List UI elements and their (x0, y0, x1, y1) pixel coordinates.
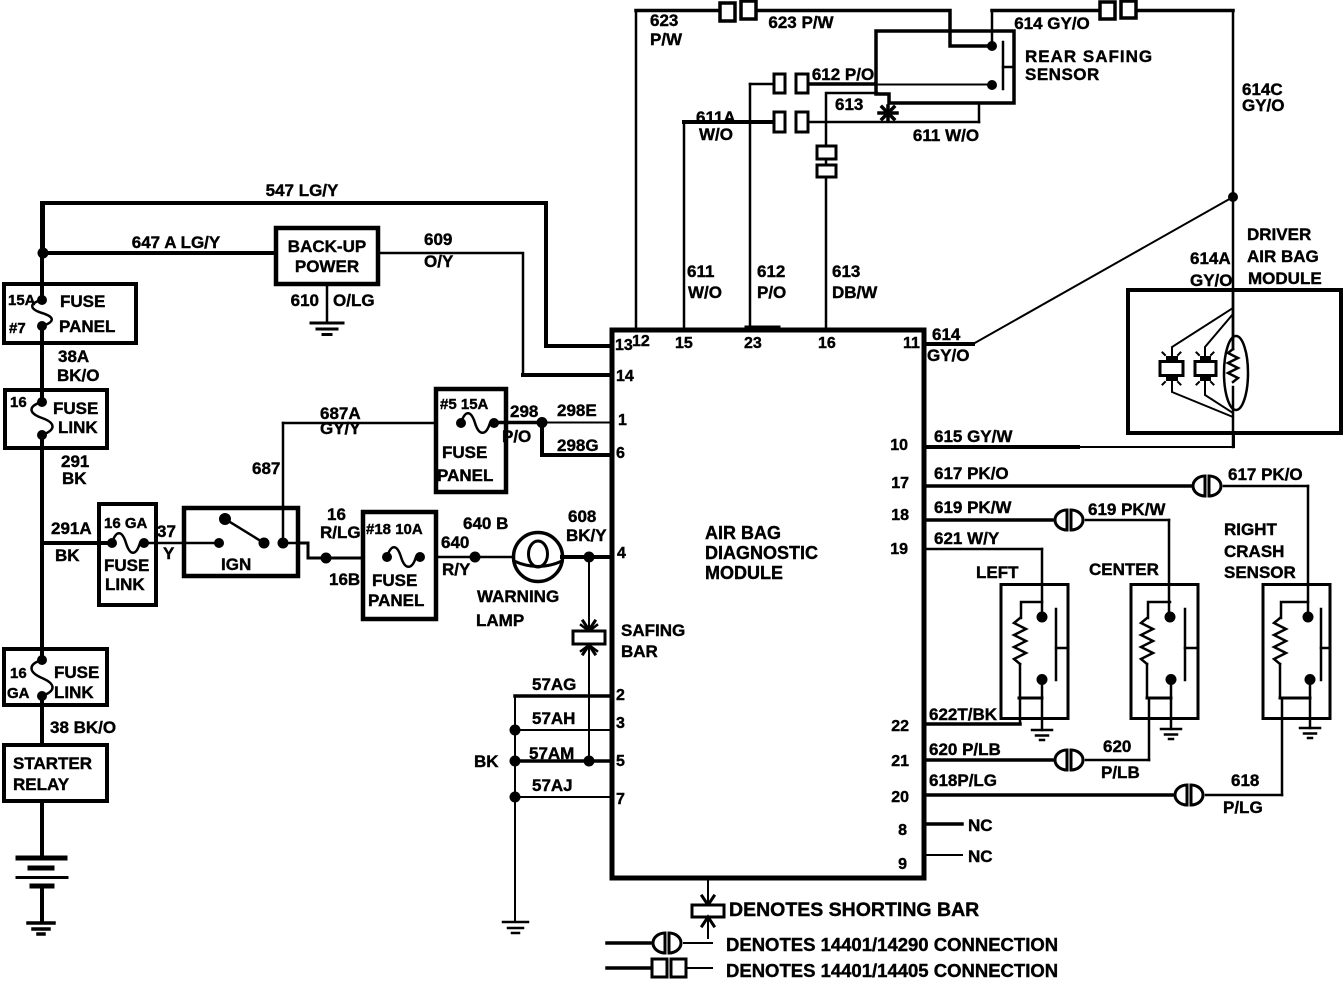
svg-text:57AM: 57AM (529, 744, 574, 763)
label 291 BK (61, 452, 89, 488)
svg-text:DIAGNOSTIC: DIAGNOSTIC (705, 543, 818, 563)
svg-text:612 P/O: 612 P/O (812, 65, 874, 84)
wire 613 DB/W (826, 93, 877, 330)
label RIGHT CRASH SENSOR (1224, 520, 1296, 582)
svg-text:RELAY: RELAY (13, 775, 70, 794)
squib 2 driver air bag (1195, 353, 1216, 385)
wire 614 diagonal to 614C (973, 197, 1233, 344)
connector 623 14401/14405 squares (720, 1, 756, 21)
svg-text:4: 4 (617, 545, 626, 562)
wire 614C inside driver module (1232, 290, 1235, 447)
connector 611 14401/14405 squares (774, 112, 808, 132)
svg-text:620 P/LB: 620 P/LB (929, 740, 1001, 759)
svg-text:22: 22 (891, 718, 909, 735)
left crash sensor internals (1014, 602, 1068, 730)
svg-text:NC: NC (968, 847, 993, 866)
label 614C GY/O (1242, 80, 1285, 115)
pin 9 (898, 856, 907, 873)
label 612 P/O top (812, 65, 874, 84)
label 291A BK (51, 519, 92, 565)
fuse link 16 symbol (32, 397, 53, 440)
pin 2 (616, 687, 625, 704)
svg-text:DENOTES 14401/14405 CONNECTION: DENOTES 14401/14405 CONNECTION (726, 960, 1058, 981)
label 614 GY/O (1014, 14, 1090, 33)
wire 547 LG/Y (43, 203, 612, 346)
wire 57AM to pin 5 (510, 756, 613, 767)
svg-text:#18 10A: #18 10A (366, 521, 423, 538)
svg-text:9: 9 (898, 856, 907, 873)
svg-text:AIR BAG: AIR BAG (705, 523, 781, 543)
svg-text:612: 612 (757, 262, 785, 281)
label 613 DB/W stacked (832, 262, 878, 302)
fuse 16 GA second symbol (32, 655, 53, 701)
wire 16 R/LG step (298, 543, 363, 564)
left crash sensor box (1001, 585, 1068, 719)
svg-text:37: 37 (157, 522, 176, 541)
svg-text:R/Y: R/Y (442, 560, 471, 579)
svg-text:SAFING: SAFING (621, 621, 685, 640)
legend 14401/14290 connection row (607, 933, 712, 953)
label 623 P/W inline (768, 13, 834, 32)
connector 617 14401/14290 (1193, 476, 1221, 496)
label 619 PK/W right (1088, 500, 1166, 519)
label 609 O/Y (424, 230, 454, 271)
svg-text:GY/O: GY/O (1242, 96, 1285, 115)
pin 20 (891, 789, 909, 806)
pin 13 (615, 337, 633, 354)
label 647 A LG/Y (132, 233, 221, 252)
wire 620 P/LB (924, 758, 1149, 762)
rear safing sensor blade (1003, 42, 1014, 89)
svg-text:WARNING: WARNING (477, 587, 559, 606)
svg-text:16B: 16B (329, 570, 360, 589)
label 16 FUSE LINK (10, 394, 98, 437)
right crash sensor internals (1274, 602, 1330, 795)
label SAFING BAR (621, 621, 685, 661)
svg-text:614A: 614A (1190, 249, 1231, 268)
wire 57A ground bus (514, 696, 516, 922)
fuse 16 GA symbol (107, 533, 149, 553)
svg-text:615 GY/W: 615 GY/W (934, 427, 1013, 446)
svg-text:POWER: POWER (295, 257, 359, 276)
label 611 W/O below sensor (913, 126, 979, 145)
label 611 W/O stacked (687, 262, 722, 302)
ground right crash sensor (1300, 728, 1320, 738)
svg-text:619 PK/W: 619 PK/W (934, 498, 1012, 517)
svg-text:LAMP: LAMP (476, 611, 524, 630)
legend shorting bar symbol (692, 878, 724, 938)
svg-text:14: 14 (616, 368, 634, 385)
svg-text:GA: GA (7, 685, 30, 702)
wire 621 W/Y (924, 549, 1042, 617)
wire 623 vertical to pin 12 (635, 11, 638, 331)
svg-text:BK/O: BK/O (57, 366, 100, 385)
wire battery feed vertical (40, 203, 44, 922)
svg-text:P/W: P/W (650, 30, 683, 49)
svg-text:DB/W: DB/W (832, 283, 878, 302)
svg-text:611 W/O: 611 W/O (913, 126, 979, 145)
module top edge tick near pin 23 (748, 326, 777, 333)
svg-text:1: 1 (618, 412, 627, 429)
label 618P/LG left (929, 771, 997, 790)
svg-text:617 PK/O: 617 PK/O (1228, 465, 1303, 484)
back-up power box (276, 228, 378, 284)
label 57AJ (532, 776, 573, 795)
label BACK-UP POWER (288, 237, 366, 276)
pin 3 (616, 715, 625, 732)
svg-text:608: 608 (568, 507, 596, 526)
connector 620 14401/14290 (1055, 750, 1083, 770)
ground battery (28, 923, 54, 934)
pin 19 (890, 541, 908, 558)
label 623 P/W stacked (650, 11, 683, 49)
label 57AM (529, 744, 574, 763)
wire 610 O/LG (326, 284, 329, 322)
label 617 PK/O left (934, 464, 1009, 483)
svg-text:640: 640 (441, 533, 469, 552)
pin 6 (616, 445, 625, 462)
center crash sensor box (1131, 585, 1198, 719)
wire 57AH to pin 3 (510, 725, 613, 736)
label DENOTES 14401/14290 CONNECTION (726, 934, 1058, 955)
svg-text:18: 18 (891, 507, 909, 524)
driver air bag module box (1128, 290, 1341, 433)
label 621 W/Y (934, 529, 1000, 548)
wire 298 P/O (494, 417, 548, 428)
svg-text:57AH: 57AH (532, 709, 575, 728)
svg-text:621 W/Y: 621 W/Y (934, 529, 1000, 548)
label BK (474, 752, 499, 771)
svg-text:623: 623 (650, 11, 678, 30)
label 16 GA FUSE LINK second (7, 663, 99, 702)
ground 57A bus (503, 922, 528, 933)
svg-text:#5 15A: #5 15A (440, 396, 489, 413)
svg-text:P/LB: P/LB (1101, 763, 1140, 782)
svg-text:IGN: IGN (221, 555, 251, 574)
svg-text:3: 3 (616, 715, 625, 732)
svg-text:O/LG: O/LG (333, 291, 375, 310)
driver module clockspring coil (1224, 336, 1248, 410)
svg-text:298E: 298E (557, 401, 597, 420)
svg-text:DENOTES 14401/14290 CONNECTION: DENOTES 14401/14290 CONNECTION (726, 934, 1058, 955)
svg-text:609: 609 (424, 230, 452, 249)
label 614 GY/O at pin 11 (927, 325, 970, 365)
label AIR BAG DIAGNOSTIC MODULE (705, 523, 818, 583)
pin 22 (891, 718, 909, 735)
svg-text:23: 23 (744, 335, 762, 352)
label 57AH (532, 709, 575, 728)
label #18 10A FUSE PANEL (366, 521, 424, 610)
svg-text:PANEL: PANEL (368, 591, 424, 610)
wire 608 BK/Y (562, 552, 612, 563)
pin 7 (616, 791, 625, 808)
label STARTER RELAY (13, 754, 92, 794)
label 620 P/LB right (1101, 737, 1140, 782)
svg-text:PANEL: PANEL (59, 317, 115, 336)
svg-text:16: 16 (10, 665, 27, 682)
label 614A GY/O (1190, 249, 1233, 290)
svg-text:BK: BK (55, 546, 80, 565)
label NC 8 (968, 816, 993, 835)
svg-text:622T/BK: 622T/BK (929, 705, 998, 724)
label 613 top (835, 95, 863, 114)
svg-text:CENTER: CENTER (1089, 560, 1159, 579)
label 687 (252, 459, 280, 478)
label REAR SAFING SENSOR (1025, 47, 1153, 84)
svg-text:11: 11 (903, 335, 920, 352)
svg-text:BAR: BAR (621, 642, 658, 661)
svg-text:298G: 298G (557, 436, 599, 455)
pin 4 (617, 545, 626, 562)
squib 1 driver air bag (1160, 353, 1183, 385)
svg-text:P/O: P/O (502, 427, 531, 446)
IGN switch box (184, 508, 298, 576)
pin 18 (891, 507, 909, 524)
svg-text:619 PK/W: 619 PK/W (1088, 500, 1166, 519)
warning lamp (514, 533, 563, 582)
fuse 15A #7 (32, 295, 52, 331)
pin 15 (675, 335, 693, 352)
squib 1 leads (1172, 308, 1233, 417)
svg-text:2: 2 (616, 687, 625, 704)
svg-text:21: 21 (891, 753, 909, 770)
label 298G (557, 436, 599, 455)
label 608 BK/Y (566, 507, 607, 545)
wire 57AJ to pin 7 (510, 792, 613, 803)
pin 16 (818, 335, 836, 352)
wire 298G to pin 6 (542, 423, 612, 456)
svg-text:DRIVER: DRIVER (1247, 225, 1311, 244)
pin 17 (891, 475, 909, 492)
pin 10 (890, 437, 908, 454)
svg-text:620: 620 (1103, 737, 1131, 756)
svg-text:AIR BAG: AIR BAG (1247, 247, 1319, 266)
pin 21 (891, 753, 909, 770)
svg-text:BK/Y: BK/Y (566, 526, 607, 545)
svg-text:687: 687 (252, 459, 280, 478)
svg-text:614: 614 (932, 325, 961, 344)
svg-text:GY/Y: GY/Y (320, 419, 361, 438)
label WARNING LAMP (476, 587, 559, 630)
wire 623 P/W horizontal (636, 11, 989, 47)
svg-text:610: 610 (291, 291, 319, 310)
svg-text:#7: #7 (9, 320, 26, 337)
svg-text:10: 10 (890, 437, 908, 454)
svg-text:W/O: W/O (699, 125, 733, 144)
svg-text:SENSOR: SENSOR (1224, 563, 1296, 582)
pin 14 (616, 368, 634, 385)
ground 610 (311, 323, 343, 335)
pin 11 (903, 335, 920, 352)
svg-text:291A: 291A (51, 519, 92, 538)
svg-text:LEFT: LEFT (976, 563, 1019, 582)
fuse link 16 GA box (99, 504, 156, 605)
safing bar component (573, 557, 605, 761)
pin 8 (898, 822, 907, 839)
svg-text:15: 15 (675, 335, 693, 352)
label 617 PK/O right (1228, 465, 1303, 484)
svg-text:STARTER: STARTER (13, 754, 92, 773)
wire 647A LG/Y (43, 251, 276, 255)
svg-text:Y: Y (163, 544, 175, 563)
svg-text:FUSE: FUSE (60, 292, 105, 311)
svg-text:GY/O: GY/O (927, 346, 970, 365)
ground left crash sensor (1032, 730, 1052, 740)
svg-text:647 A LG/Y: 647 A LG/Y (132, 233, 221, 252)
svg-text:NC: NC (968, 816, 993, 835)
wire 617 PK/O (924, 486, 1308, 617)
label 57AG (532, 675, 576, 694)
right crash sensor box (1263, 585, 1330, 719)
label 618 P/LG right (1223, 771, 1263, 817)
svg-text:611: 611 (687, 262, 714, 281)
svg-text:SENSOR: SENSOR (1025, 65, 1100, 84)
wire 615 GY/W (924, 433, 1234, 447)
svg-text:19: 19 (890, 541, 908, 558)
wire 614 GY/O top (992, 9, 1233, 13)
svg-text:FUSE: FUSE (442, 443, 487, 462)
wire 291A (42, 541, 112, 545)
svg-text:BK: BK (474, 752, 499, 771)
svg-text:6: 6 (616, 445, 625, 462)
starter relay box (4, 745, 107, 801)
label NC 9 (968, 847, 993, 866)
svg-text:P/LG: P/LG (1223, 798, 1263, 817)
svg-text:GY/O: GY/O (1190, 271, 1233, 290)
svg-text:REAR SAFING: REAR SAFING (1025, 47, 1153, 66)
svg-text:38A: 38A (58, 347, 89, 366)
svg-text:R/LG: R/LG (320, 523, 361, 542)
svg-text:MODULE: MODULE (1248, 269, 1322, 288)
pin 23 (744, 335, 762, 352)
wire 612 P/O (750, 84, 992, 330)
svg-text:16 GA: 16 GA (104, 515, 148, 532)
wire 298E to pin 1 (542, 422, 612, 424)
svg-text:BACK-UP: BACK-UP (288, 237, 366, 256)
label 615 GY/W (934, 427, 1013, 446)
svg-text:BK: BK (62, 469, 87, 488)
rear safing sensor box (876, 31, 1014, 103)
pin 5 (616, 753, 625, 770)
label 298 P/O (502, 402, 538, 446)
fuse #5 symbol (456, 413, 499, 433)
svg-text:613: 613 (832, 262, 860, 281)
svg-text:LINK: LINK (58, 418, 98, 437)
wire NC pin 8 (924, 822, 962, 826)
label 16 R/LG (320, 505, 361, 542)
junction dot 647A (38, 248, 49, 259)
svg-text:DENOTES SHORTING BAR: DENOTES SHORTING BAR (729, 899, 979, 921)
junction 614C diagonal dot (1228, 192, 1238, 202)
svg-text:16: 16 (818, 335, 836, 352)
label 15A #7 FUSE PANEL (8, 292, 115, 337)
rear safing sensor bottom contact (987, 80, 997, 90)
label 38A BK/O (57, 347, 100, 385)
svg-text:W/O: W/O (688, 283, 722, 302)
svg-text:CRASH: CRASH (1224, 542, 1284, 561)
svg-text:57AJ: 57AJ (532, 776, 573, 795)
shorting bars on wire 613 (817, 146, 836, 177)
squib 2 leads (1205, 314, 1233, 413)
svg-text:FUSE: FUSE (372, 571, 417, 590)
svg-text:15A: 15A (8, 292, 36, 309)
label 622T/BK (929, 705, 998, 724)
connector 619 14401/14290 (1055, 510, 1083, 530)
svg-text:16: 16 (327, 505, 346, 524)
fuse panel 15A #7 box (4, 284, 136, 343)
svg-text:617 PK/O: 617 PK/O (934, 464, 1009, 483)
svg-text:547 LG/Y: 547 LG/Y (266, 181, 339, 200)
rear safing sensor top contact with 614 entry (987, 11, 997, 52)
svg-text:13: 13 (615, 337, 633, 354)
wire NC pin 9 (924, 854, 962, 856)
svg-text:7: 7 (616, 791, 625, 808)
svg-text:38 BK/O: 38 BK/O (50, 718, 116, 737)
svg-text:P/O: P/O (757, 283, 786, 302)
svg-text:MODULE: MODULE (705, 563, 783, 583)
svg-text:618P/LG: 618P/LG (929, 771, 997, 790)
splice star on 613 (879, 106, 897, 120)
svg-text:PANEL: PANEL (437, 466, 493, 485)
label 298E (557, 401, 597, 420)
svg-text:618: 618 (1231, 771, 1259, 790)
label 640 R/Y 640B (441, 514, 508, 579)
svg-text:614 GY/O: 614 GY/O (1014, 14, 1090, 33)
svg-text:FUSE: FUSE (53, 399, 98, 418)
svg-text:16: 16 (10, 394, 27, 411)
wire 618 P/LG (924, 793, 1282, 797)
svg-text:20: 20 (891, 789, 909, 806)
svg-text:298: 298 (510, 402, 538, 421)
label 547 LG/Y (266, 181, 339, 200)
svg-text:O/Y: O/Y (424, 252, 454, 271)
svg-text:640 B: 640 B (463, 514, 508, 533)
wire 614 GY/O pin 11 stub (924, 342, 973, 346)
svg-text:5: 5 (616, 753, 625, 770)
label DENOTES SHORTING BAR (729, 899, 979, 921)
wire 609 O/Y (378, 253, 612, 375)
svg-text:FUSE: FUSE (104, 556, 149, 575)
label LEFT (976, 563, 1019, 582)
label #5 15A FUSE PANEL (437, 396, 493, 485)
wire 57AG to pin 2 (515, 694, 612, 698)
pin 12 (632, 333, 650, 350)
label 38 BK/O (50, 718, 116, 737)
battery (17, 858, 67, 886)
wire 687A (283, 422, 436, 425)
label DRIVER AIR BAG MODULE (1247, 225, 1322, 288)
connector 612 14401/14405 squares (774, 74, 808, 93)
label 687A GY/Y (320, 404, 361, 438)
label DENOTES 14401/14405 CONNECTION (726, 960, 1058, 981)
svg-text:LINK: LINK (105, 575, 145, 594)
label 620 P/LB left (929, 740, 1001, 759)
svg-text:FUSE: FUSE (54, 663, 99, 682)
svg-text:LINK: LINK (54, 683, 94, 702)
label CENTER (1089, 560, 1159, 579)
pin 1 (618, 412, 627, 429)
fuse link 16 box (5, 390, 107, 448)
svg-text:623 P/W: 623 P/W (768, 13, 834, 32)
label 16B (329, 570, 360, 589)
svg-text:RIGHT: RIGHT (1224, 520, 1278, 539)
wire 611 W/O (684, 103, 979, 330)
wire 619 PK/W (924, 520, 1169, 617)
wire 622 T/BK (924, 698, 1020, 724)
label 619 PK/W left (934, 498, 1012, 517)
fuse link 16 GA second box (4, 649, 107, 705)
label 611A W/O (696, 108, 736, 144)
